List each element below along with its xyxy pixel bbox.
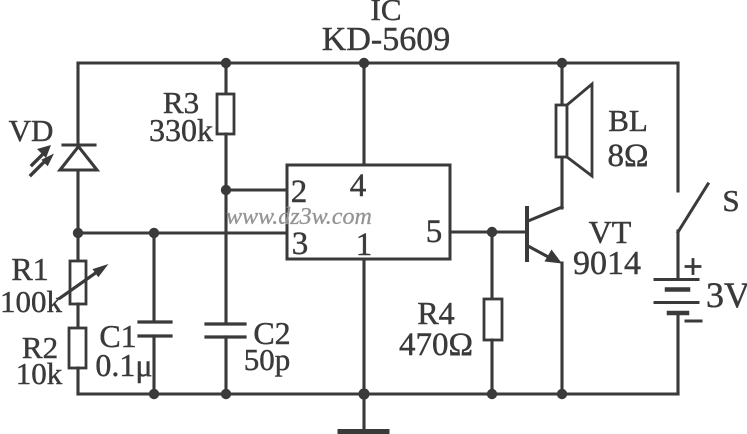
- wire R4 upper: [490, 232, 493, 299]
- wire R2 to bottom rail: [76, 368, 79, 394]
- node emitter bottom: [557, 389, 567, 399]
- svg-text:R4: R4: [417, 295, 454, 331]
- wire switch to battery: [676, 231, 679, 279]
- wire C2 to bottom rail: [224, 337, 227, 394]
- svg-text:www.dz3w.com: www.dz3w.com: [226, 204, 372, 230]
- node pin1 bottom: [358, 388, 369, 399]
- wire C1 branch upper: [152, 233, 155, 322]
- speaker BL: [556, 84, 592, 176]
- battery plus sign: [686, 260, 700, 274]
- wire bottom rail: [78, 392, 678, 395]
- node pin4 top: [359, 58, 369, 68]
- wire emitter down: [560, 263, 563, 394]
- node R4 bottom: [487, 389, 497, 399]
- capacitor C2: [206, 324, 245, 337]
- wire speaker top: [560, 63, 563, 105]
- svg-text:0.1μ: 0.1μ: [95, 347, 152, 383]
- wire battery to bottom rail: [676, 313, 679, 394]
- svg-text:VD: VD: [9, 113, 54, 148]
- resistor R3: [217, 94, 234, 134]
- svg-text:330k: 330k: [149, 112, 213, 148]
- svg-text:3: 3: [292, 226, 309, 262]
- wire pin 5: [450, 230, 492, 233]
- node VD / R1 / pin3 junction: [73, 228, 83, 238]
- svg-text:1: 1: [356, 227, 373, 263]
- node C1 bottom: [149, 389, 159, 399]
- wire junction to R1: [76, 233, 79, 261]
- resistor R2: [69, 328, 86, 368]
- wire R4 lower: [490, 340, 493, 394]
- svg-text:4: 4: [350, 168, 367, 204]
- wire pin 4: [362, 63, 365, 165]
- svg-text:KD-5609: KD-5609: [322, 21, 450, 58]
- node C2 bottom: [221, 389, 231, 399]
- wire R3 to pin2 node: [224, 134, 227, 190]
- resistor R4: [484, 299, 502, 340]
- battery minus sign: [686, 320, 701, 323]
- svg-text:BL: BL: [608, 103, 648, 138]
- IC U1 KD-5609 box: [287, 165, 450, 259]
- wire right rail upper: [676, 63, 679, 191]
- svg-text:50p: 50p: [244, 342, 291, 377]
- node pin2 junction: [221, 185, 231, 195]
- wire C1 branch lower: [152, 336, 155, 394]
- wire R3 branch to C2: [224, 190, 227, 324]
- svg-text:470Ω: 470Ω: [399, 327, 473, 363]
- capacitor C1: [139, 322, 171, 336]
- photodiode VD: [31, 145, 97, 175]
- ground: [340, 394, 387, 432]
- wire R3 branch top: [224, 63, 227, 94]
- resistor R1 (variable): [60, 261, 109, 304]
- wire pin 2: [226, 188, 287, 191]
- wire collector to speaker: [560, 157, 563, 208]
- wire pin 1: [362, 259, 365, 394]
- node R3 top: [221, 58, 231, 68]
- battery 3V: [655, 280, 698, 314]
- wire VD cathode to junction: [76, 170, 79, 233]
- svg-text:9014: 9014: [573, 245, 641, 282]
- svg-text:R1: R1: [11, 251, 48, 287]
- transistor Q1 VT 9014: [527, 207, 562, 264]
- wire pin3 line: [78, 231, 287, 234]
- svg-text:8Ω: 8Ω: [607, 138, 648, 174]
- wire base: [492, 230, 527, 233]
- node C1 top: [149, 228, 159, 238]
- svg-text:3V: 3V: [706, 275, 747, 315]
- svg-text:10k: 10k: [16, 356, 63, 391]
- node speaker top: [557, 58, 567, 68]
- node R4 top: [487, 227, 497, 237]
- svg-text:S: S: [722, 183, 739, 218]
- svg-text:5: 5: [426, 214, 443, 250]
- wire R1 to R2: [76, 304, 79, 328]
- switch S: [678, 184, 708, 232]
- wire top rail: [78, 61, 678, 64]
- svg-text:100k: 100k: [0, 284, 63, 319]
- wire left rail upper: [76, 63, 79, 145]
